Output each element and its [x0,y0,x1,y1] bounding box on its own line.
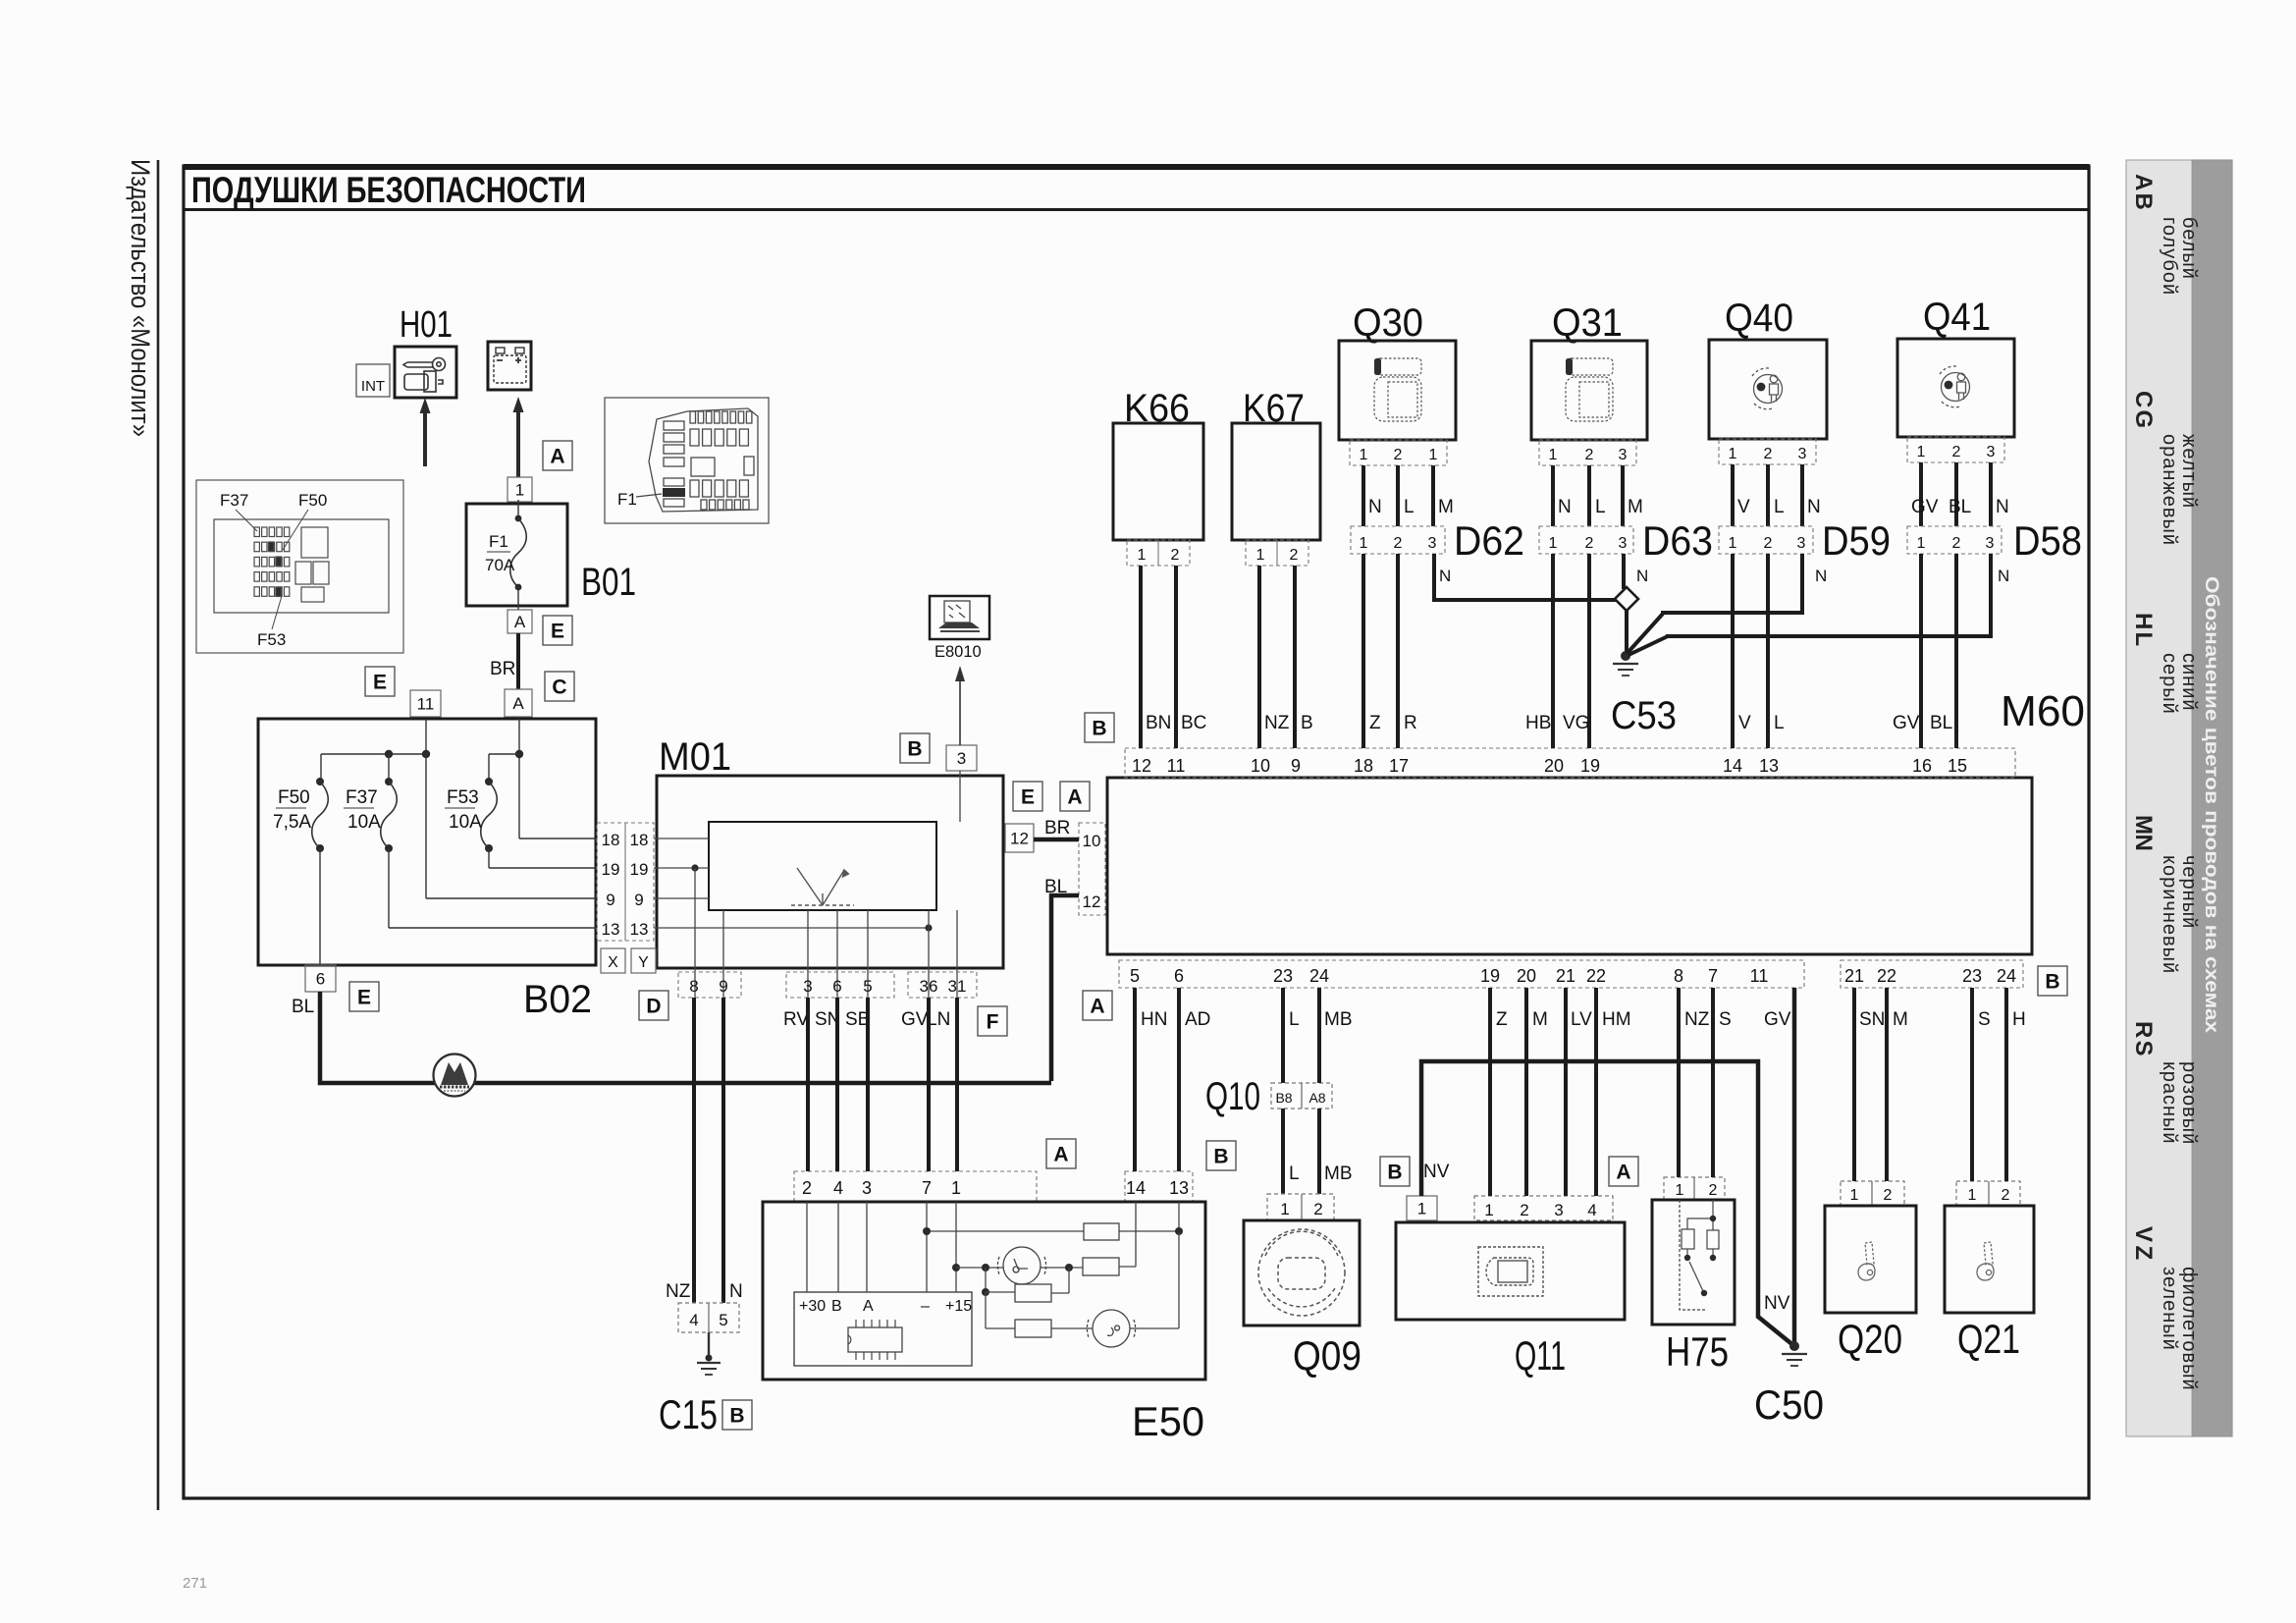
wire K66-1 BN [1139,566,1143,748]
connector C15 pins 4/5 [678,1303,739,1332]
B02 feed row13 [388,848,390,928]
wire K67-2 B [1293,566,1297,748]
svg-text:15: 15 [1948,756,1967,776]
svg-text:19: 19 [630,860,649,879]
legend entry R/S [2130,1021,2200,1145]
svg-text:23: 23 [1962,966,1982,986]
pretensioner Q31 box [1531,341,1647,440]
svg-text:F50: F50 [278,787,310,808]
svg-text:H: H [2130,613,2157,629]
ref label [C] near BR wire [545,672,574,701]
svg-text:18: 18 [630,831,649,849]
svg-text:1: 1 [1729,446,1737,462]
svg-text:B: B [1301,713,1313,733]
svg-text:11: 11 [1750,966,1769,986]
svg-text:A: A [1067,786,1082,809]
wire D59-2 L [1766,554,1770,748]
E50 lamp circle (seat) [997,1247,1045,1284]
svg-text:11: 11 [417,695,435,714]
svg-text:+30: +30 [799,1298,826,1315]
svg-text:9: 9 [634,891,643,909]
svg-text:7,5A: 7,5A [273,812,311,833]
battery icon [494,348,526,383]
ref label [E] near B01 bottom [543,616,572,645]
svg-text:BR: BR [1044,818,1070,839]
svg-text:3: 3 [1987,444,1996,460]
wire D58-2 BL [1954,554,1958,748]
svg-text:1: 1 [1429,447,1438,463]
svg-text:1: 1 [1917,535,1926,552]
svg-text:B: B [1092,718,1106,740]
connector D59 strip [1719,526,1813,554]
svg-text:Z: Z [2130,1246,2157,1261]
legend header strip [2192,160,2232,1436]
svg-text:1: 1 [951,1178,961,1198]
svg-text:NZ: NZ [666,1281,691,1302]
airbag ECU M60 box [1107,778,2032,954]
M01 inner gauge box [709,822,936,910]
M01 internal drops [694,868,696,998]
Q21 icon [1977,1242,1994,1280]
svg-text:271: 271 [183,1575,207,1592]
svg-text:21: 21 [1556,966,1575,986]
B02 feed row18 [519,838,597,839]
B02 bus [321,753,426,755]
svg-text:1: 1 [1549,447,1558,463]
svg-text:9: 9 [1291,756,1301,776]
svg-text:2: 2 [1952,444,1961,460]
svg-text:2: 2 [1952,535,1961,552]
ref label [B] left of Q10 wires [1206,1141,1236,1170]
fuse F53 10A [481,782,498,848]
junction diamond (N wires) [1615,587,1638,611]
svg-text:H01: H01 [400,304,453,346]
svg-text:серый: серый [2159,653,2180,715]
wire NV Q11 to C50 [1421,1061,1794,1346]
svg-text:24: 24 [1997,966,2016,986]
svg-text:F50: F50 [298,491,327,510]
svg-text:B: B [1387,1162,1402,1184]
E50 resistor R4 [1015,1320,1051,1337]
svg-text:23: 23 [1273,966,1293,986]
svg-text:2: 2 [1171,547,1180,564]
junction box B02 [258,719,596,965]
ref label [A] below M60 pin5 [1083,991,1112,1020]
svg-text:17: 17 [1389,756,1409,776]
svg-text:белый: белый [2178,217,2200,280]
Q30 icon [1374,358,1421,421]
svg-text:N: N [1558,497,1572,517]
Q40 pin strip [1719,439,1816,464]
svg-text:голубой: голубой [2159,217,2180,296]
wire Q41-2 BL [1954,462,1958,526]
bag switch Q41 box [1897,339,2014,437]
B02 feed row9 [425,754,427,898]
ref label [A] above E50 strip A [1046,1139,1076,1168]
E50 resistor R2 [1083,1258,1119,1275]
wire K66-2 BC [1174,566,1178,748]
ref label [B] left of Q11 pin1 [1380,1157,1410,1186]
svg-text:Q21: Q21 [1957,1316,2020,1362]
svg-text:21: 21 [1844,966,1864,986]
connector D63 strip [1539,526,1633,554]
buckle switch Q11 box [1396,1222,1625,1320]
svg-text:H: H [2012,1009,2026,1030]
ref label [B] left of M60 strip [1085,713,1114,742]
fuse F50 7,5A [312,782,329,848]
svg-text:S: S [1719,1009,1732,1030]
svg-text:A: A [1616,1162,1630,1184]
B02 branch to F50 [320,754,322,782]
svg-text:синий: синий [2178,653,2200,712]
Q30 pin strip [1350,440,1447,465]
wire M60-7 to H75-2 (S) [1711,988,1715,1177]
wire Q41-3 N [1989,462,1993,526]
ref label [A] M60 left A [1060,782,1090,811]
M60 pins 10/12 box [1079,823,1105,915]
ref box X [601,948,625,973]
belt buckle Q20 pin strip [1841,1181,1904,1206]
svg-text:N: N [729,1281,743,1302]
svg-text:BL: BL [1949,497,1971,517]
svg-text:G: G [2130,410,2157,429]
wire M60-24 to Q10 (MB) [1317,988,1321,1083]
wire BL horizontal run [320,992,1051,1083]
wire D59-1 V [1731,554,1735,748]
svg-text:M: M [1628,497,1643,517]
svg-text:19: 19 [1580,756,1600,776]
C15 ground lead [708,1332,710,1358]
svg-text:F: F [987,1011,999,1034]
svg-text:4: 4 [1587,1201,1596,1219]
B01 F1 70A fuse symbol [517,500,519,517]
svg-text:Z: Z [1369,713,1381,733]
svg-text:C15: C15 [659,1391,718,1437]
svg-text:Q10: Q10 [1205,1075,1260,1118]
svg-text:B01: B01 [581,561,636,604]
svg-text:L: L [1774,497,1785,517]
M01 row9 trace [654,897,709,899]
instrument module E50 box [763,1202,1205,1380]
wire Q40-3 N [1800,464,1804,526]
svg-text:B: B [2130,193,2157,210]
svg-text:1: 1 [1360,447,1368,463]
connector pin A (B02 top) [505,689,532,717]
svg-text:2: 2 [1764,446,1773,462]
svg-text:D: D [646,996,661,1018]
svg-text:INT: INT [361,378,385,395]
wire M01-3 to E50-2 [806,998,810,1171]
svg-text:MB: MB [1324,1163,1353,1184]
wire M01-36 to E50-7 [927,998,931,1171]
svg-text:N: N [1807,497,1821,517]
svg-text:2: 2 [1313,1200,1322,1218]
ref box INT [356,364,390,397]
legend entry H/L [2130,613,2200,715]
svg-text:X: X [608,954,618,971]
svg-text:3: 3 [1798,446,1807,462]
wire Q40-1 V [1731,464,1735,526]
Q09 pin strip [1267,1194,1334,1220]
C50 ground dot [1789,1341,1799,1351]
B02 branch to F37 [388,754,390,782]
E50 buzzer circle [1087,1310,1135,1347]
wire M60-5 to E50-14 (HN) [1133,988,1137,1171]
svg-text:B: B [831,1298,842,1315]
svg-text:GV: GV [1764,1009,1791,1030]
B02 F53 bus [489,753,519,755]
svg-text:7: 7 [1708,966,1718,986]
svg-text:NV: NV [1423,1162,1450,1182]
ref box Y [631,948,656,973]
svg-text:1: 1 [1138,547,1147,564]
legend panel [2126,160,2232,1436]
svg-text:ПОДУШКИ БЕЗОПАСНОСТИ: ПОДУШКИ БЕЗОПАСНОСТИ [191,170,586,210]
svg-text:E50: E50 [1132,1398,1204,1444]
fuse F37 10A [381,782,398,848]
svg-text:GV: GV [901,1009,929,1030]
wire M60-19 to Q11 (Z) [1488,988,1492,1196]
wire to E8010 (arrow) [959,679,961,745]
svg-text:20: 20 [1517,966,1536,986]
svg-text:M: M [1438,497,1454,517]
svg-text:NZ: NZ [1264,713,1290,733]
svg-text:MB: MB [1324,1009,1353,1030]
svg-text:BR: BR [490,659,515,679]
svg-text:V: V [1738,713,1751,733]
svg-text:1: 1 [1360,535,1368,552]
svg-text:1: 1 [1729,535,1737,552]
svg-text:LV: LV [1571,1009,1592,1030]
ref label [E] below B02 [349,982,379,1011]
legend entry V/Z [2130,1226,2200,1391]
wire battery to B01 (arrow) [516,405,520,477]
ref label [A] right of Q11 strip [1609,1157,1638,1186]
ref label [B] right of M60 bottom strip [2038,966,2067,996]
svg-text:20: 20 [1544,756,1564,776]
svg-text:B8: B8 [1275,1090,1292,1106]
E50 IC chip [848,1327,902,1352]
svg-text:–: – [921,1298,930,1315]
svg-text:18: 18 [602,831,620,849]
svg-text:13: 13 [1759,756,1779,776]
svg-text:Издательство «Монолит»: Издательство «Монолит» [126,159,155,437]
svg-text:S: S [1978,1009,1991,1030]
svg-text:N: N [1996,497,2009,517]
B02 wire from pin A [518,717,520,839]
wire Q30-2 L [1396,465,1400,526]
svg-text:V: V [1737,497,1750,517]
svg-text:зеленый: зеленый [2159,1267,2180,1351]
svg-text:коричневый: коричневый [2159,855,2180,974]
svg-text:2: 2 [1764,535,1773,552]
E50 row2 right [1041,1267,1083,1269]
svg-text:N: N [2130,835,2157,851]
svg-text:2: 2 [1709,1182,1718,1199]
M60 bottom pin strip (left) [1119,960,1804,988]
svg-text:16: 16 [1912,756,1932,776]
svg-text:1: 1 [1256,547,1265,564]
svg-text:3: 3 [1554,1201,1563,1219]
pretensioner Q30 box [1339,341,1456,440]
wire Q10 to Q09 (L) [1281,1109,1285,1194]
wire M60-22 to Q11 (HM) [1594,988,1598,1196]
wire D63-3 N to C53 [1622,554,1626,589]
svg-text:Y: Y [638,954,649,971]
E50 row3 [985,1268,987,1292]
wire D59-3 N to C53 [1661,554,1802,613]
svg-text:B: B [729,1405,744,1428]
wire Q41-1 GV [1919,462,1923,526]
C53 diagonal from D58 line [1629,636,1668,655]
wire Q30-1 N [1362,465,1365,526]
svg-text:N: N [1636,567,1648,585]
svg-text:18: 18 [1354,756,1373,776]
svg-text:D59: D59 [1822,517,1891,564]
svg-text:2: 2 [1585,535,1594,552]
svg-text:5: 5 [863,977,872,996]
svg-text:желтый: желтый [2178,434,2200,509]
svg-text:13: 13 [630,920,649,939]
svg-text:31: 31 [948,977,967,996]
svg-text:фиолетовый: фиолетовый [2178,1267,2200,1391]
svg-text:SN: SN [1859,1009,1885,1030]
svg-text:1: 1 [1280,1200,1289,1218]
ref label [D] left of M01 pins [639,991,668,1020]
svg-text:R: R [2130,1021,2157,1038]
svg-text:NV: NV [1764,1293,1790,1314]
svg-text:E: E [1021,786,1035,809]
wire D63-1 HB [1551,554,1555,748]
svg-text:BL: BL [1044,877,1067,897]
side airbag module K66 box [1113,423,1203,540]
svg-text:2: 2 [1394,535,1403,552]
svg-text:B02: B02 [523,978,592,1021]
svg-text:22: 22 [1586,966,1606,986]
svg-text:F1: F1 [489,532,508,551]
svg-text:AD: AD [1185,1009,1210,1030]
svg-text:6: 6 [316,970,325,989]
svg-text:2: 2 [802,1178,812,1198]
connector pin 6 (B02 bottom) [305,965,336,992]
legend entry A/B [2130,174,2200,296]
svg-text:F53: F53 [257,630,286,649]
wire BR B01 to B02 [516,633,520,689]
svg-text:красный: красный [2159,1061,2180,1145]
wire Q31-1 N [1551,465,1555,526]
svg-text:3: 3 [1986,535,1995,552]
legend entry M/N [2130,815,2200,974]
M01 gauge symbol [791,868,854,905]
E50 top rail [927,1230,1084,1232]
svg-text:E: E [373,672,387,694]
svg-text:9: 9 [606,891,614,909]
svg-text:1: 1 [1676,1182,1684,1199]
svg-text:N: N [1815,567,1827,585]
wire M60-21 to Q11 (LV) [1564,988,1568,1196]
bag switch Q40 box [1709,340,1827,439]
svg-text:HB: HB [1525,713,1551,733]
Q09 steering wheel icon [1258,1229,1345,1316]
svg-text:3: 3 [803,977,812,996]
svg-text:M: M [2130,815,2157,835]
svg-text:F1: F1 [617,490,637,509]
svg-text:10: 10 [1083,832,1101,850]
maxi fuse B01 box [466,504,567,606]
wire Q10 to Q09 (MB) [1317,1109,1321,1194]
svg-text:L: L [1595,497,1606,517]
E50 leads from pins [806,1202,808,1292]
M01 row13 trace [654,927,929,929]
connector pin 1 (Q11 NV) [1407,1196,1437,1220]
svg-text:B: B [1213,1146,1228,1168]
svg-text:D62: D62 [1454,517,1524,564]
wire D62-2 R [1396,554,1400,748]
svg-text:7: 7 [922,1178,932,1198]
svg-text:C53: C53 [1611,694,1677,737]
svg-text:L: L [1289,1009,1300,1030]
wire D63-2 VG [1587,554,1591,748]
svg-text:6: 6 [832,977,841,996]
svg-text:HN: HN [1141,1009,1167,1030]
E50 top pin strip B [1125,1171,1193,1202]
svg-text:E8010: E8010 [934,643,982,661]
svg-text:Q20: Q20 [1838,1316,1902,1362]
svg-text:L: L [1404,497,1415,517]
svg-text:3: 3 [957,749,966,768]
svg-text:2: 2 [2002,1187,2010,1204]
wire M60-23 to Q10 (L) [1281,988,1285,1083]
svg-text:36: 36 [920,977,938,996]
wire BR M01-M60 [1034,838,1079,842]
belt buckle Q21 pin strip [1956,1181,2020,1206]
ref label [B] above M01 [900,733,930,763]
wire Q31-3 M [1621,465,1625,526]
connector D58 strip [1907,526,2002,554]
wire M60-24r to Q21-2 (H) [2004,988,2008,1181]
K67 pin strip [1246,540,1308,566]
svg-text:B: B [907,738,922,761]
svg-text:70A: 70A [485,556,515,574]
svg-text:3: 3 [1428,535,1437,552]
M01 pin columns 18/19/9/13 [597,823,654,941]
svg-text:L: L [2130,632,2157,647]
connector pin 1 (B01 top) [507,477,532,502]
clock spring Q10 connector [1271,1083,1332,1109]
svg-text:N: N [1998,567,2009,585]
svg-text:+15: +15 [945,1298,972,1315]
svg-text:1: 1 [515,481,524,500]
svg-text:A: A [512,694,524,713]
svg-text:19: 19 [1480,966,1500,986]
svg-text:1: 1 [1850,1187,1859,1204]
Q20 icon [1858,1242,1875,1280]
B02 fuse location inset [196,480,403,653]
svg-text:M60: M60 [2001,687,2085,735]
svg-text:4: 4 [689,1311,698,1329]
E50 row2 rail [952,1264,960,1271]
svg-text:D58: D58 [2013,517,2082,564]
svg-text:11: 11 [1167,756,1186,776]
svg-text:BL: BL [1930,713,1952,733]
ref label [B] right of C15 label [722,1400,752,1430]
diagnostic connector E8010 icon [930,596,989,639]
svg-text:M: M [1532,1009,1548,1030]
svg-text:22: 22 [1877,966,1896,986]
Q31 icon [1566,358,1613,421]
svg-text:Q41: Q41 [1923,296,1991,339]
svg-text:M: M [1893,1009,1908,1030]
